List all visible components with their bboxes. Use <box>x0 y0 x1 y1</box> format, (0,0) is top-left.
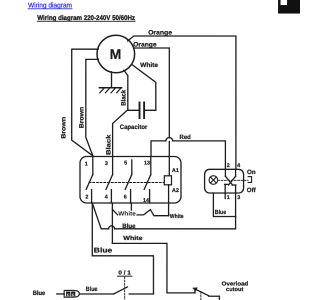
svg-text:4: 4 <box>105 194 108 200</box>
svg-text:Blue: Blue <box>94 247 113 254</box>
contactor pole 1-2 <box>86 156 93 203</box>
svg-text:5: 5 <box>124 161 127 167</box>
wire A2 to white bus <box>168 185 170 216</box>
svg-text:Blue: Blue <box>122 223 136 230</box>
contactor coil <box>164 176 171 185</box>
wire black (capacitor left to contactor terminal 3) <box>113 110 128 157</box>
wire white bus below contactor <box>112 209 168 215</box>
svg-text:3: 3 <box>105 161 108 167</box>
svg-text:Wiring diagram: Wiring diagram <box>28 1 72 9</box>
capacitor C1 <box>140 102 145 118</box>
lamp (neon indicator) <box>209 176 218 185</box>
svg-text:Black: Black <box>106 134 113 155</box>
svg-text:Orange: Orange <box>133 41 157 48</box>
svg-text:A2: A2 <box>172 188 179 194</box>
svg-text:Brown: Brown <box>79 107 86 129</box>
wire A1 feed (below hop into coil) <box>168 142 170 176</box>
wire orange 2 (motor to contactor coil A1, upper part) <box>134 48 170 138</box>
switch S1 body <box>205 169 244 193</box>
svg-text:Capacitor: Capacitor <box>120 124 148 131</box>
svg-text:Brown: Brown <box>61 117 68 139</box>
contactor terminal numbers bottom <box>85 194 149 204</box>
svg-text:14: 14 <box>143 198 149 204</box>
wire blue bus (terminal 2 to lamp circuit, hops over white) <box>93 204 236 229</box>
motor M1 <box>97 35 135 73</box>
wire white lower run to overload <box>112 243 195 293</box>
svg-text:White: White <box>140 62 158 69</box>
wire lamp to terminal 3 junction <box>213 193 235 217</box>
overload cutout contact <box>193 288 220 300</box>
decorative corner block top-right <box>278 0 300 14</box>
wire terminal 2 down to 0/1 switch <box>92 203 153 294</box>
label Overload cutout <box>222 280 249 293</box>
wire red (contactor 13 to switch terminal 2, hops over A1 wire) <box>151 138 225 170</box>
contactor terminal numbers top <box>85 161 150 168</box>
svg-text:cutout: cutout <box>226 287 243 293</box>
svg-text:Blue: Blue <box>33 290 46 297</box>
wire brown outer (motor to contactor terminal 1) <box>72 49 99 156</box>
svg-text:White: White <box>118 210 136 217</box>
svg-text:A1: A1 <box>172 168 179 174</box>
svg-text:13: 13 <box>144 161 150 167</box>
svg-text:White: White <box>123 235 143 242</box>
svg-text:Wiring diagram 220-240V 50/60H: Wiring diagram 220-240V 50/60Hz <box>37 15 135 22</box>
switch knob <box>248 177 251 183</box>
svg-text:1: 1 <box>85 161 88 167</box>
svg-text:Blue: Blue <box>86 286 98 293</box>
switch contact 2-1 <box>225 169 233 198</box>
wire white (motor to capacitor right) <box>132 65 156 111</box>
wire terminal 4 down (under blue hop) <box>111 203 113 243</box>
svg-text:White: White <box>170 213 184 220</box>
switch S2 0/1 <box>79 276 153 300</box>
svg-text:M: M <box>110 46 122 62</box>
svg-text:4: 4 <box>237 163 240 169</box>
svg-text:2: 2 <box>85 194 88 200</box>
wire terminal 6 stub <box>130 203 132 215</box>
switch terminal numbers <box>227 163 241 201</box>
svg-text:0 / 1: 0 / 1 <box>118 269 131 276</box>
link "Wiring diagram" <box>28 1 72 9</box>
title "Wiring diagram 220-240V 50/60Hz" <box>37 15 135 22</box>
svg-text:Black: Black <box>121 89 128 105</box>
ground <box>99 88 121 93</box>
wire motor earth lead <box>111 72 113 88</box>
svg-text:1: 1 <box>227 195 230 201</box>
wire orange 1 (motor to switch terminal 4) <box>128 36 236 169</box>
wire brown inner (motor to contactor terminal 1) <box>86 59 99 155</box>
contactor pole 5-6 <box>125 160 132 203</box>
contactor aux pole 13-14 <box>144 156 151 203</box>
svg-text:6: 6 <box>124 194 127 200</box>
contactor K1 body <box>80 156 181 203</box>
plug P1 <box>57 290 80 297</box>
svg-text:Blue: Blue <box>215 209 227 216</box>
switch actuator dashed link <box>218 179 248 181</box>
svg-text:Red: Red <box>180 134 192 141</box>
contactor actuator dashed link <box>89 181 163 183</box>
contactor pole 3-4 <box>106 156 113 203</box>
svg-text:On: On <box>247 169 256 176</box>
switch contact 4-3 <box>229 169 236 216</box>
wire black (motor to capacitor left) <box>124 70 139 110</box>
svg-text:Off: Off <box>247 187 257 194</box>
svg-text:3: 3 <box>237 195 240 201</box>
svg-text:2: 2 <box>227 163 230 169</box>
svg-text:Orange: Orange <box>148 29 172 36</box>
